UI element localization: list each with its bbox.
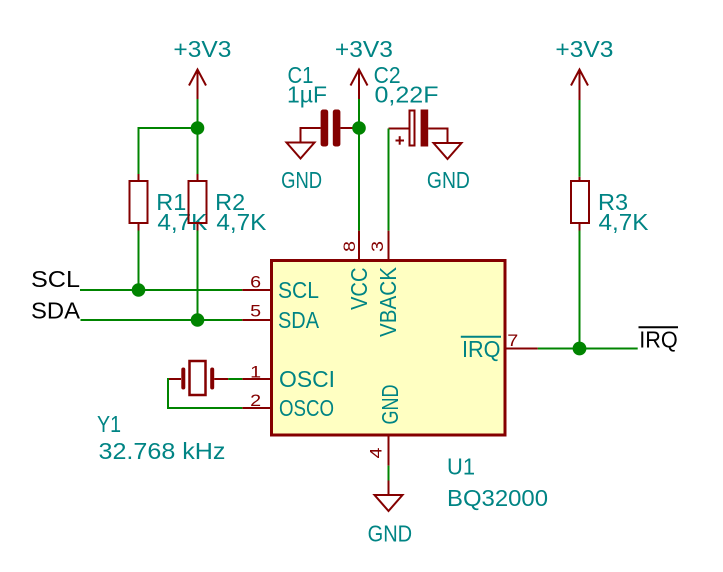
svg-text:VCC: VCC [346,268,372,311]
svg-text:4,7K: 4,7K [157,209,208,235]
power +3V3 symbol (middle) [351,70,368,101]
pin 5 SDA [242,319,270,321]
capacitor C1 [321,110,341,147]
ground symbol (U1 GND) [375,481,403,512]
svg-text:8: 8 [340,241,359,252]
svg-text:GND: GND [281,167,322,193]
svg-text:SCL: SCL [31,266,80,292]
svg-text:3: 3 [368,241,387,252]
svg-text:VBACK: VBACK [375,266,401,337]
svg-text:BQ32000: BQ32000 [447,485,548,511]
wire R1 bottom to SCL [138,231,140,291]
wire C1 left pin [301,128,321,143]
wire junction to R1 branch horizontal [139,127,199,129]
wire crystal loop vertical [167,378,169,408]
svg-text:4,7K: 4,7K [216,209,267,235]
svg-text:GND: GND [427,167,470,193]
wire +3V3 left vertical [197,99,199,128]
capacitor C2 (polarized) [410,110,429,147]
svg-text:7: 7 [507,331,518,350]
pin 3 VBACK [388,231,390,259]
svg-text:GND: GND [368,521,413,547]
svg-text:U1: U1 [447,454,475,480]
junction SDA/R2 [191,313,205,327]
wire VBACK vertical [388,129,390,231]
pin 4 GND [388,437,390,466]
wire +3V3 middle vertical [358,99,360,128]
pin 2 OSCO [242,407,270,409]
svg-text:+3V3: +3V3 [335,36,393,62]
wire GND pin to symbol [388,466,390,481]
wire R3 top vertical [579,99,581,177]
svg-text:4,7K: 4,7K [599,209,650,235]
svg-text:IRQ: IRQ [462,336,501,362]
resistor R3 [571,177,589,231]
wire R2 top vertical [197,128,199,174]
svg-text:SDA: SDA [278,307,320,333]
svg-text:+3V3: +3V3 [555,36,613,62]
pin 1 OSCI [242,378,270,380]
svg-text:SCL: SCL [278,277,319,303]
wire VCC vertical [358,128,360,231]
svg-text:6: 6 [250,273,261,292]
svg-text:Y1: Y1 [97,411,121,437]
svg-text:4: 4 [367,448,386,459]
svg-text:IRQ: IRQ [639,326,678,352]
wire R3 bottom vertical [579,231,581,349]
svg-text:1: 1 [250,362,261,381]
wire OSCI from crystal [228,378,242,380]
junction C1/+3V3/VCC [352,121,366,135]
crystal Y1 [168,361,228,395]
svg-text:32.768 kHz: 32.768 kHz [99,438,226,464]
wire C1 right pin [340,127,354,129]
pin 6 SCL [242,289,270,291]
power +3V3 symbol (left) [189,70,206,101]
svg-text:OSCI: OSCI [279,366,335,392]
wire OSCO horizontal [167,407,242,409]
svg-text:+3V3: +3V3 [173,36,231,62]
svg-text:OSCO: OSCO [279,395,334,421]
wire C2 left pin [389,128,409,130]
junction SCL/R1 [132,283,146,297]
junction at R1/R2 top [191,121,205,135]
svg-text:1µF: 1µF [287,82,327,108]
svg-text:SDA: SDA [31,297,81,323]
svg-text:5: 5 [250,301,261,320]
pin 7 IRQ [507,348,538,350]
wire R1 branch vertical [138,127,140,174]
pin 8 VCC [358,231,360,259]
resistor R1 [130,174,148,231]
svg-text:2: 2 [250,391,261,410]
junction IRQ/R3 [573,342,587,356]
plus mark (C2 polarity) [396,140,405,142]
ground symbol (C1) [287,128,315,159]
svg-text:GND: GND [377,385,403,425]
svg-text:0,22F: 0,22F [375,82,439,108]
resistor R2 [189,174,207,231]
wire C2 right pin [428,129,447,144]
wire IRQ [538,348,638,350]
wire SCL [80,289,242,291]
wire R2 bottom to SDA [197,231,199,321]
power +3V3 symbol (right) [571,70,588,101]
ground symbol (C2) [434,129,462,160]
wire SDA [81,319,243,321]
op IC U1 BQ32000 body [272,261,506,436]
